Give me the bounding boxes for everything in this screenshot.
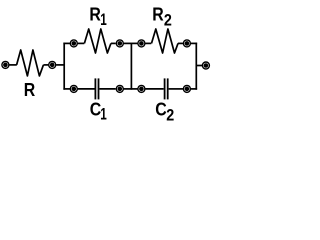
left bracket vertical xyxy=(63,43,65,90)
wire left bracket to top node xyxy=(63,42,70,44)
svg-text:2: 2 xyxy=(164,12,172,30)
svg-text:R: R xyxy=(24,79,36,100)
wire node to right bracket top xyxy=(191,42,197,44)
label R2 xyxy=(152,3,172,30)
label R1 xyxy=(89,3,107,29)
svg-text:1: 1 xyxy=(100,11,107,29)
node C1 left xyxy=(70,85,77,92)
wire R1 to node xyxy=(111,42,116,44)
wire C1 to node xyxy=(99,88,115,90)
wire R2 to node xyxy=(178,42,183,44)
node C2 right xyxy=(183,85,190,92)
wire C2 to node xyxy=(169,88,184,90)
wire R to node xyxy=(43,64,48,66)
capacitor C1 xyxy=(95,78,98,99)
left terminal node xyxy=(2,61,9,68)
label C1 xyxy=(90,98,107,124)
node C1 right xyxy=(116,85,123,92)
wire node to right bracket bottom xyxy=(191,88,197,90)
wire left bracket to bottom node xyxy=(63,88,70,90)
wire right bracket to terminal xyxy=(196,65,202,67)
wire node to middle top xyxy=(123,42,137,44)
node R2 left xyxy=(138,40,145,47)
svg-text:R: R xyxy=(89,3,101,24)
middle vertical xyxy=(130,43,132,89)
node R1 right xyxy=(116,40,123,47)
resistor R2 xyxy=(152,29,179,53)
svg-text:1: 1 xyxy=(100,106,107,124)
node R1 left xyxy=(70,40,77,47)
wire node to C1 xyxy=(78,88,95,90)
svg-text:2: 2 xyxy=(166,107,174,125)
right terminal node xyxy=(202,62,209,69)
resistor R xyxy=(17,50,44,76)
wire node to R2 xyxy=(145,42,151,44)
node after R xyxy=(49,61,56,68)
right bracket vertical xyxy=(195,43,197,90)
node R2 right xyxy=(183,40,190,47)
wire node to R1 xyxy=(78,42,85,44)
resistor R1 xyxy=(84,29,111,53)
svg-text:R: R xyxy=(152,3,164,24)
capacitor C2 xyxy=(165,78,168,99)
wire node to C2 xyxy=(145,88,163,90)
wire node to middle bottom xyxy=(123,88,137,90)
wire node to left bracket xyxy=(56,64,65,66)
node C2 left xyxy=(138,85,145,92)
wire terminal to R xyxy=(9,64,16,66)
label C2 xyxy=(155,98,174,125)
